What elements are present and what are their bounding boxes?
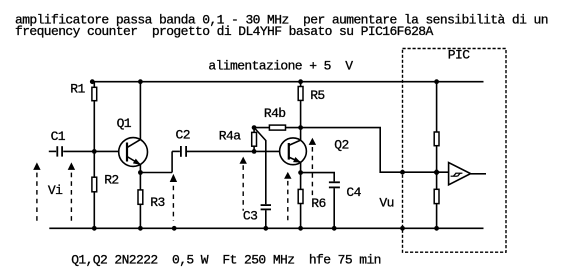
svg-text:R3: R3 bbox=[150, 195, 164, 210]
svg-text:R6: R6 bbox=[311, 196, 325, 211]
svg-text:Q1: Q1 bbox=[117, 116, 132, 131]
svg-text:alimentazione + 5 V: alimentazione + 5 V bbox=[208, 59, 353, 74]
svg-text:C2: C2 bbox=[176, 127, 190, 142]
svg-text:Vu: Vu bbox=[379, 196, 393, 211]
svg-text:R4a: R4a bbox=[219, 129, 241, 144]
svg-text:C1: C1 bbox=[51, 129, 66, 144]
svg-text:R1: R1 bbox=[70, 82, 85, 97]
svg-text:Q1,Q2 2N2222 0,5 W Ft 250 MH: Q1,Q2 2N2222 0,5 W Ft 250 MHz hfe 75 min bbox=[71, 252, 381, 267]
svg-text:frequency counter progetto di: frequency counter progetto di DL4YHF bas… bbox=[15, 24, 433, 39]
svg-text:R2: R2 bbox=[104, 172, 118, 187]
svg-text:R4b: R4b bbox=[264, 106, 286, 121]
svg-text:R5: R5 bbox=[310, 88, 324, 103]
svg-text:C3: C3 bbox=[243, 209, 257, 224]
svg-text:Vi: Vi bbox=[48, 183, 63, 198]
svg-text:C4: C4 bbox=[346, 185, 361, 200]
svg-text:Q2: Q2 bbox=[334, 137, 348, 152]
svg-text:PIC: PIC bbox=[448, 48, 470, 63]
